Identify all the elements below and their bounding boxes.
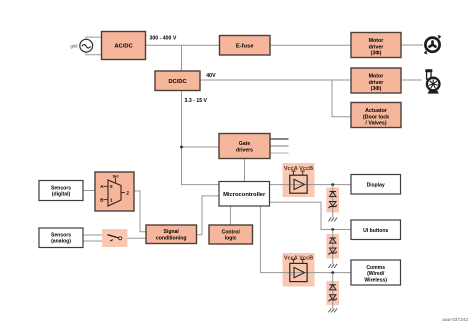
svg-text:AC/DC: AC/DC — [114, 44, 133, 50]
node junction display line — [331, 183, 334, 186]
block display — [351, 175, 401, 195]
svg-text:Display: Display — [367, 182, 385, 188]
wire sensors digital to mux — [83, 190, 95, 192]
svg-text:(digital): (digital) — [52, 192, 71, 198]
wire gate drivers to microcontroller — [244, 159, 246, 182]
wire microcontroller down to isolator 2 to comms — [260, 206, 351, 273]
wire mux Z to signal conditioning — [134, 191, 146, 232]
ground 2 — [328, 264, 337, 268]
svg-text:300 - 400 V: 300 - 400 V — [150, 36, 177, 42]
compressor motor icon M1 — [424, 35, 442, 55]
svg-text:(Door lock: (Door lock — [363, 114, 389, 120]
wire gate driver output stub 2 — [270, 145, 289, 147]
wire switch pole to signal conditioning — [121, 237, 146, 239]
svg-text:(3Φ): (3Φ) — [371, 86, 382, 92]
wire sensors analog to switch contact 2 — [83, 240, 112, 242]
svg-text:Wireless): Wireless) — [364, 277, 387, 283]
TVS protection block 3 — [326, 273, 339, 309]
pump icon M2 — [425, 69, 439, 93]
svg-text:UI buttons: UI buttons — [363, 228, 388, 234]
block gate drivers — [219, 134, 270, 159]
wire microcontroller to control logic — [229, 206, 231, 225]
wire motor driver 2 to pump icon — [401, 79, 422, 81]
wire AC/DC to E-fuse (300-400V bus) — [146, 44, 220, 46]
svg-text:3.3 - 15 V: 3.3 - 15 V — [185, 98, 208, 104]
wire gate driver output stub 1 — [270, 138, 289, 140]
block signal conditioning — [146, 225, 197, 244]
wire 3.3-15V branch to gate drivers — [182, 146, 220, 148]
svg-text:(Wired/: (Wired/ — [367, 271, 385, 277]
wire 40V branch down to actuator — [332, 80, 351, 117]
svg-text:Sel: Sel — [113, 174, 119, 179]
svg-text:Actuator: Actuator — [365, 108, 387, 114]
svg-text:(3Φ): (3Φ) — [371, 51, 382, 57]
svg-text:Gate: Gate — [239, 141, 250, 147]
wire branch 300-400V down to DC/DC — [181, 45, 183, 71]
wire microcontroller to UI buttons — [270, 202, 352, 229]
svg-text:0: 0 — [110, 184, 113, 189]
node junction comms line — [331, 271, 334, 274]
TVS protection block 1 — [326, 185, 339, 218]
svg-text:Control: Control — [222, 229, 241, 235]
svg-text:VccA VccB: VccA VccB — [284, 255, 313, 261]
wire gate driver output stub 3 — [270, 152, 289, 154]
block sensors digital — [39, 181, 83, 201]
wire sensors analog to switch contact 1 — [83, 234, 108, 236]
wire 3.3-15V rail down from DC/DC to microcontroller — [182, 91, 220, 185]
block E-fuse — [220, 36, 271, 56]
wire grid source to AC/DC bottom — [86, 52, 102, 55]
block motor driver 1 — [351, 33, 401, 58]
block DC/DC — [155, 71, 200, 91]
node junction UI buttons line — [331, 228, 334, 231]
svg-text:40V: 40V — [206, 73, 216, 79]
svg-text:drivers: drivers — [236, 147, 253, 153]
block motor driver 2 — [351, 68, 401, 93]
node junction 3.3-15V / gate drivers — [180, 146, 183, 149]
svg-text:(analog): (analog) — [51, 239, 71, 245]
switch block (analog input selector) — [102, 229, 128, 247]
block sensors analog — [39, 228, 83, 248]
block mux (2:1 multiplexer) — [95, 172, 134, 211]
isolator U2 (VccA VccB) — [283, 253, 315, 287]
svg-text:Motor: Motor — [369, 74, 384, 80]
svg-text:Motor: Motor — [369, 38, 384, 44]
wire grid source to AC/DC top — [86, 37, 102, 40]
ground 3 — [328, 308, 337, 312]
svg-text:grid: grid — [71, 43, 79, 48]
svg-text:1: 1 — [110, 198, 113, 203]
block microcontroller — [219, 182, 270, 207]
wire signal conditioning to microcontroller — [197, 196, 220, 235]
block comms — [351, 260, 401, 285]
svg-text:Z: Z — [126, 191, 129, 196]
svg-text:Signal: Signal — [164, 229, 180, 235]
ground 1 — [328, 218, 337, 222]
svg-text:VccA VccB: VccA VccB — [284, 166, 313, 172]
svg-text:Microcontroller: Microcontroller — [223, 192, 266, 198]
block UI buttons — [351, 220, 401, 240]
block actuator — [351, 103, 401, 128]
block AC/DC — [102, 32, 146, 60]
svg-text:Sensors: Sensors — [51, 233, 71, 239]
svg-text:/ Valves): / Valves) — [365, 121, 386, 127]
wire E-fuse to motor driver 1 — [270, 44, 351, 46]
svg-text:driver: driver — [369, 44, 384, 50]
wire motor driver 1 to compressor icon — [401, 44, 423, 46]
svg-text:logic: logic — [225, 236, 237, 242]
isolator U1 (VccA VccB) — [283, 163, 315, 197]
svg-text:aaa-037342: aaa-037342 — [442, 317, 468, 323]
svg-text:driver: driver — [369, 80, 384, 86]
TVS protection block 2 — [326, 230, 339, 265]
AC source V1 (grid) — [80, 39, 93, 52]
svg-text:E-fuse: E-fuse — [236, 43, 254, 49]
svg-text:DC/DC: DC/DC — [168, 79, 187, 85]
wire microcontroller to isolator 1 to display — [270, 184, 352, 186]
svg-text:Comms: Comms — [366, 265, 385, 271]
wire DC/DC 40V to motor driver 2 — [200, 79, 351, 81]
block control logic — [209, 225, 253, 244]
svg-text:conditioning: conditioning — [156, 235, 187, 241]
svg-text:Sensors: Sensors — [51, 185, 71, 191]
